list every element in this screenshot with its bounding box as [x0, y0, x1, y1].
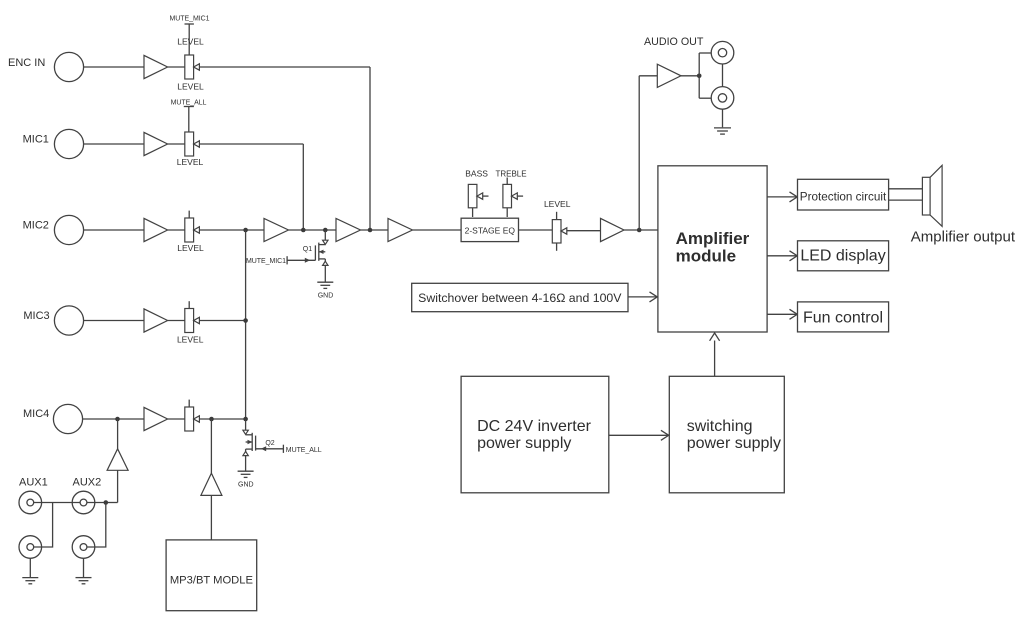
wire amp A1 to pot RV1: [168, 66, 185, 68]
wire audio-out tap vertical: [638, 76, 640, 230]
svg-text:LEVEL: LEVEL: [177, 335, 204, 345]
wire RCA splitter vertical: [698, 53, 700, 98]
ground (AUX2 shield): [76, 578, 92, 584]
connector J9 AUX1 right RCA (pin): [27, 544, 34, 551]
svg-text:ENC IN: ENC IN: [8, 57, 45, 69]
terminal tick RV5 top: [188, 400, 190, 407]
block Switchover box: [412, 283, 628, 311]
svg-text:GND: GND: [238, 482, 254, 489]
op-amp summing stage A6: [264, 218, 289, 241]
wire Q2 source to ground: [245, 449, 247, 470]
connector J7 RCA jack (outer): [711, 87, 734, 110]
wire A6 to A7: [289, 229, 337, 231]
potentiometer RV7 TREBLE body: [503, 184, 512, 207]
svg-text:BASS: BASS: [465, 169, 488, 179]
wire to line-out amp: [639, 75, 657, 77]
wire switching supply to amplifier module: [714, 341, 716, 377]
svg-text:LED display: LED display: [800, 248, 885, 265]
transistor Q1 N-MOSFET body: [315, 243, 325, 261]
op-amp buffer A1: [144, 55, 168, 78]
wire A12 input down: [117, 470, 119, 502]
op-amp buffer A4: [144, 309, 168, 332]
svg-text:LEVEL: LEVEL: [177, 82, 204, 92]
ground GND (Q2 source): [238, 471, 254, 477]
wire EQ box to master level pot: [519, 229, 553, 231]
connector J7 RCA jack (pin): [718, 94, 726, 102]
terminal tick RV4 top: [188, 301, 190, 308]
svg-text:MUTE_MIC1: MUTE_MIC1: [246, 258, 286, 265]
wire MIC1 down to mix bus: [302, 144, 304, 230]
connector J11 AUX2 right RCA (pin): [80, 544, 87, 551]
wire to RCA jack J7: [699, 97, 711, 99]
wire MIC1 jack to amp: [84, 143, 144, 145]
wire amp A3 to pot RV3: [168, 229, 185, 231]
potentiometer RV4 wiper arrow: [194, 317, 200, 323]
block DC 24V inverter power supply box: [461, 376, 609, 493]
svg-text:module: module: [676, 247, 736, 266]
wire J9 pin to bus riser: [34, 503, 53, 548]
speaker LS1 horn: [930, 165, 942, 226]
potentiometer RV5 wiper arrow: [194, 416, 200, 422]
node mix bus bottom junction: [243, 417, 248, 422]
wire ENC IN pot output horizontal: [199, 66, 370, 68]
wire Q1 gate lead: [287, 259, 315, 261]
op-amp line-out buffer A10: [657, 64, 681, 87]
potentiometer RV8 wiper arrow: [561, 228, 567, 234]
svg-text:DC 24V inverter: DC 24V inverter: [477, 418, 591, 435]
ground GND (Q1 source): [317, 282, 333, 288]
wire RV6 bottom to EQ box: [472, 208, 474, 217]
svg-text:LEVEL: LEVEL: [177, 157, 204, 167]
terminal tick MUTE_MIC1 net: [286, 256, 288, 264]
svg-text:AUX2: AUX2: [73, 477, 102, 489]
node MIC3 join junction: [243, 318, 248, 323]
node mix bus junction at MIC2: [243, 228, 248, 233]
arrow into fun control: [790, 309, 798, 319]
ground (AUX1 shield): [22, 578, 38, 584]
wire A7 to A8: [361, 229, 389, 231]
wire ENC IN jack to amp: [84, 66, 144, 68]
node Q1 drain tap junction: [323, 228, 328, 233]
connector J9 AUX1 right RCA (outer): [19, 536, 42, 559]
block MP3/BT MODLE box: [166, 540, 257, 611]
node audio-out tap junction: [637, 228, 642, 233]
svg-text:MIC1: MIC1: [23, 134, 49, 146]
svg-text:MP3/BT MODLE: MP3/BT MODLE: [170, 575, 253, 587]
potentiometer RV8 master level body: [552, 220, 561, 243]
wire switchover to amplifier module: [628, 296, 657, 298]
svg-text:AUX1: AUX1: [19, 477, 48, 489]
wire Q2 gate lead: [256, 448, 284, 450]
terminal tick RV7 top: [506, 178, 508, 185]
connector J2 MIC1 input circle: [54, 129, 83, 158]
potentiometer RV1 wiper arrow: [194, 64, 200, 70]
wire amplifier to fun control: [767, 313, 796, 315]
wire MIC1 pot output horizontal: [199, 143, 303, 145]
wire to RCA jack J6: [699, 52, 711, 54]
svg-text:LEVEL: LEVEL: [177, 37, 204, 47]
op-amp AUX buffer A12 (up): [107, 449, 128, 471]
svg-text:power supply: power supply: [477, 435, 571, 452]
svg-text:LEVEL: LEVEL: [177, 243, 204, 253]
svg-text:GND: GND: [318, 293, 334, 300]
wire amp A2 to pot RV2: [168, 143, 185, 145]
op-amp stage A8: [388, 218, 413, 241]
wire AUX2 shield to ground: [83, 558, 85, 577]
op-amp buffer A5: [144, 407, 168, 430]
label Amplifier module: [676, 229, 750, 266]
wire amplifier to protection circuit: [767, 196, 796, 198]
wire A11 to MIC4 line: [210, 419, 212, 473]
connector J4 MIC3 input circle: [54, 306, 83, 335]
wire RV6 wiper stub: [483, 195, 489, 197]
wire A9 to amplifier module: [624, 229, 658, 231]
potentiometer RV2 wiper arrow: [194, 141, 200, 147]
svg-text:2-STAGE EQ: 2-STAGE EQ: [465, 226, 516, 236]
wire MIC3 pot to mix bus: [199, 320, 245, 322]
node ENC IN join junction: [368, 228, 373, 233]
arrow Q2 source current (up): [243, 451, 248, 455]
wire speaker upper: [889, 188, 923, 190]
wire MUTE_MIC1 to pot RV1 top: [188, 24, 190, 55]
node MP3 join junction: [209, 417, 214, 422]
svg-text:Switchover between 4-16Ω and 1: Switchover between 4-16Ω and 100V: [418, 291, 622, 305]
wire Q1 drain from mix line: [324, 230, 326, 240]
wire A8 to 2-STAGE EQ: [413, 229, 462, 231]
svg-text:Q2: Q2: [265, 440, 274, 447]
svg-text:Q1: Q1: [303, 246, 312, 253]
terminal tick RV3 top: [188, 211, 190, 218]
transistor Q2 N-MOSFET body (mirrored): [246, 433, 256, 451]
svg-text:LEVEL: LEVEL: [544, 199, 571, 209]
op-amp output stage A9: [601, 218, 625, 241]
wire J7 to ground: [722, 109, 724, 127]
wire A12 to MIC4 line: [117, 419, 119, 449]
wire speaker lower: [889, 199, 923, 201]
wire amp A5 to pot RV5: [168, 418, 185, 420]
wire A10 to RCA pair: [681, 75, 699, 77]
connector J6 RCA jack (outer): [711, 41, 734, 64]
connector J6 RCA jack (pin): [718, 49, 726, 57]
label switching power supply: [687, 418, 781, 452]
wire MP3 box to amp A11: [210, 495, 212, 540]
terminal tick RV8 bottom: [556, 243, 558, 251]
potentiometer RV5 body: [185, 407, 194, 431]
speaker LS1 driver: [922, 177, 930, 215]
connector J1 ENC IN input circle: [54, 52, 83, 81]
arrow Q1 drain current (down): [323, 240, 328, 244]
wire MIC2 jack to amp: [84, 229, 144, 231]
wire amp A4 to pot RV4: [168, 320, 185, 322]
op-amp buffer A2: [144, 132, 168, 155]
block LED display box: [798, 241, 889, 271]
op-amp stage A7: [336, 218, 361, 241]
potentiometer RV1 body: [185, 55, 194, 79]
svg-text:MIC2: MIC2: [23, 220, 49, 232]
svg-text:MUTE_MIC1: MUTE_MIC1: [170, 16, 210, 23]
wire J6 shield to J7 shield: [722, 64, 724, 87]
label DC 24V inverter power supply: [477, 418, 591, 452]
op-amp MP3 buffer A11 (up): [201, 473, 222, 495]
arrow Q2 drain current (down): [243, 430, 248, 434]
wire DC supply to switching supply: [609, 434, 668, 436]
potentiometer RV6 wiper arrow: [477, 193, 483, 199]
potentiometer RV2 body: [185, 132, 194, 156]
wire AUX1 pin to AUX2 pin: [34, 502, 80, 504]
wire RV7 wiper stub: [517, 195, 523, 197]
svg-text:power supply: power supply: [687, 435, 781, 452]
wire MUTE_ALL to pot RV2 top: [188, 107, 190, 133]
svg-text:MUTE_ALL: MUTE_ALL: [286, 447, 322, 454]
connector J10 AUX2 left RCA (outer): [72, 491, 95, 514]
terminal tick MUTE_MIC1: [185, 23, 194, 25]
svg-text:Amplifier output: Amplifier output: [911, 228, 1016, 245]
arrow Q1 gate signal (right): [305, 258, 310, 263]
potentiometer RV3 body: [185, 218, 194, 242]
wire Q2 drain from MIC4 node: [245, 419, 247, 430]
wire MIC4 jack to amp: [83, 418, 144, 420]
wire ENC IN down to mix bus: [369, 67, 371, 230]
wire AUX bus to A12: [106, 502, 118, 504]
wire RV8 wiper to amp A9: [567, 230, 601, 232]
terminal tick RV8 top: [556, 212, 558, 220]
op-amp buffer A3: [144, 218, 168, 241]
wire AUX2 pin to junction: [87, 502, 106, 504]
node MIC1 join junction: [301, 228, 306, 233]
svg-text:MUTE_ALL: MUTE_ALL: [171, 100, 207, 107]
svg-text:TREBLE: TREBLE: [495, 170, 526, 179]
wire MIC2 pot to summing amp: [199, 229, 264, 231]
svg-text:switching: switching: [687, 418, 753, 435]
node RCA splitter junction: [697, 74, 702, 79]
connector J8 AUX1 left RCA (pin): [27, 499, 34, 506]
svg-text:Fun control: Fun control: [803, 309, 883, 326]
wire J11 pin to bus riser: [87, 503, 106, 548]
svg-text:Protection circuit: Protection circuit: [800, 191, 887, 204]
wire MIC3 jack to amp: [84, 320, 144, 322]
arrow Q1 source current (up): [323, 261, 328, 265]
node AUX bus junction: [104, 500, 109, 505]
wire AUX1 shield to ground: [29, 558, 31, 577]
wire amplifier to LED display: [767, 255, 796, 257]
arrow into amplifier module (switchover): [650, 292, 658, 302]
connector J3 MIC2 input circle: [54, 215, 83, 244]
node AUX join junction: [115, 417, 120, 422]
potentiometer RV4 body: [185, 309, 194, 333]
svg-text:Amplifier: Amplifier: [676, 229, 750, 248]
connector J5 MIC4 input circle: [53, 404, 82, 433]
potentiometer RV6 BASS body: [468, 184, 477, 207]
arrow into amplifier module (power): [710, 333, 720, 341]
block 2-STAGE EQ box: [461, 218, 518, 241]
svg-text:MIC4: MIC4: [23, 408, 49, 420]
potentiometer RV7 wiper arrow: [512, 193, 518, 199]
arrow into protection circuit: [790, 192, 798, 202]
arrow Q2 gate signal (left): [261, 446, 266, 451]
block Amplifier module box: [658, 166, 767, 332]
potentiometer RV3 wiper arrow: [194, 227, 200, 233]
svg-text:AUDIO OUT: AUDIO OUT: [644, 36, 704, 48]
wire vertical mix bus: [245, 230, 247, 419]
svg-text:MIC3: MIC3: [23, 310, 49, 322]
block switching power supply box: [669, 376, 784, 493]
arrow into switching supply: [661, 430, 669, 440]
connector J10 AUX2 left RCA (pin): [80, 499, 87, 506]
terminal tick MUTE_ALL: [184, 106, 194, 108]
block Protection circuit box: [798, 179, 889, 210]
wire Q1 source to ground: [324, 259, 326, 282]
ground (AUDIO OUT shield): [714, 128, 731, 134]
terminal tick MUTE_ALL net: [282, 445, 284, 453]
arrow into LED display: [790, 251, 798, 261]
connector J11 AUX2 right RCA (outer): [72, 536, 95, 559]
wire RV7 bottom to EQ box: [506, 208, 508, 217]
block Fun control box: [798, 302, 889, 332]
connector J8 AUX1 left RCA (outer): [19, 491, 42, 514]
wire MIC4 pot to mix bus: [199, 418, 245, 420]
